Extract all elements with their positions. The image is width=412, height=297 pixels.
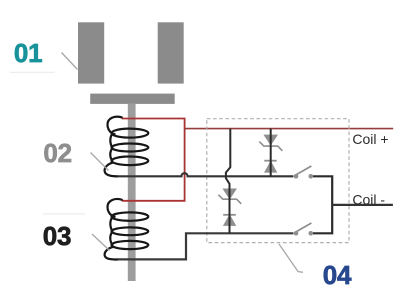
svg-text:02: 02 [43,138,72,168]
wire: vertical from red rail through D2 with jog [226,129,230,234]
leader line for 02 [91,153,109,171]
TVS diode pair D2 triangles and bars [218,189,241,225]
red wire: Coil + rail [185,128,394,130]
dashed suppression-module box (04) [207,119,349,243]
red wire: coil02 top to coil03 top via right vertical [122,119,185,201]
armature T-bar [90,94,175,104]
coil 03 winding [105,199,149,260]
wire: coil02 bottom to top switch with hop over red [118,173,294,176]
svg-text:03: 03 [43,221,72,251]
leader line for 04 [279,244,303,272]
leader line for 03 [92,234,110,251]
relay pole piece left (01) [78,22,104,83]
coil 02 winding [105,117,149,177]
wire: top switch right to right bus down to bottom switch right [313,176,332,233]
bottom switch S2 [294,223,313,236]
wire: bottom rail to coil03 bottom [118,233,294,259]
svg-text:Coil -: Coil - [352,192,385,208]
svg-text:04: 04 [323,260,352,290]
relay pole piece right (01) [158,22,184,83]
svg-text:Coil +: Coil + [352,131,388,147]
top switch S1 [294,166,313,179]
wire: vertical through D1 [270,129,272,177]
wire: Coil - lead [332,204,393,206]
core bar [128,104,136,281]
faint separator under label 01 [10,71,55,73]
faint separator above label 03 [43,213,85,215]
svg-text:01: 01 [14,38,43,68]
leader line for 01 [62,53,78,70]
TVS diode pair D1 triangles and bars [259,135,282,171]
